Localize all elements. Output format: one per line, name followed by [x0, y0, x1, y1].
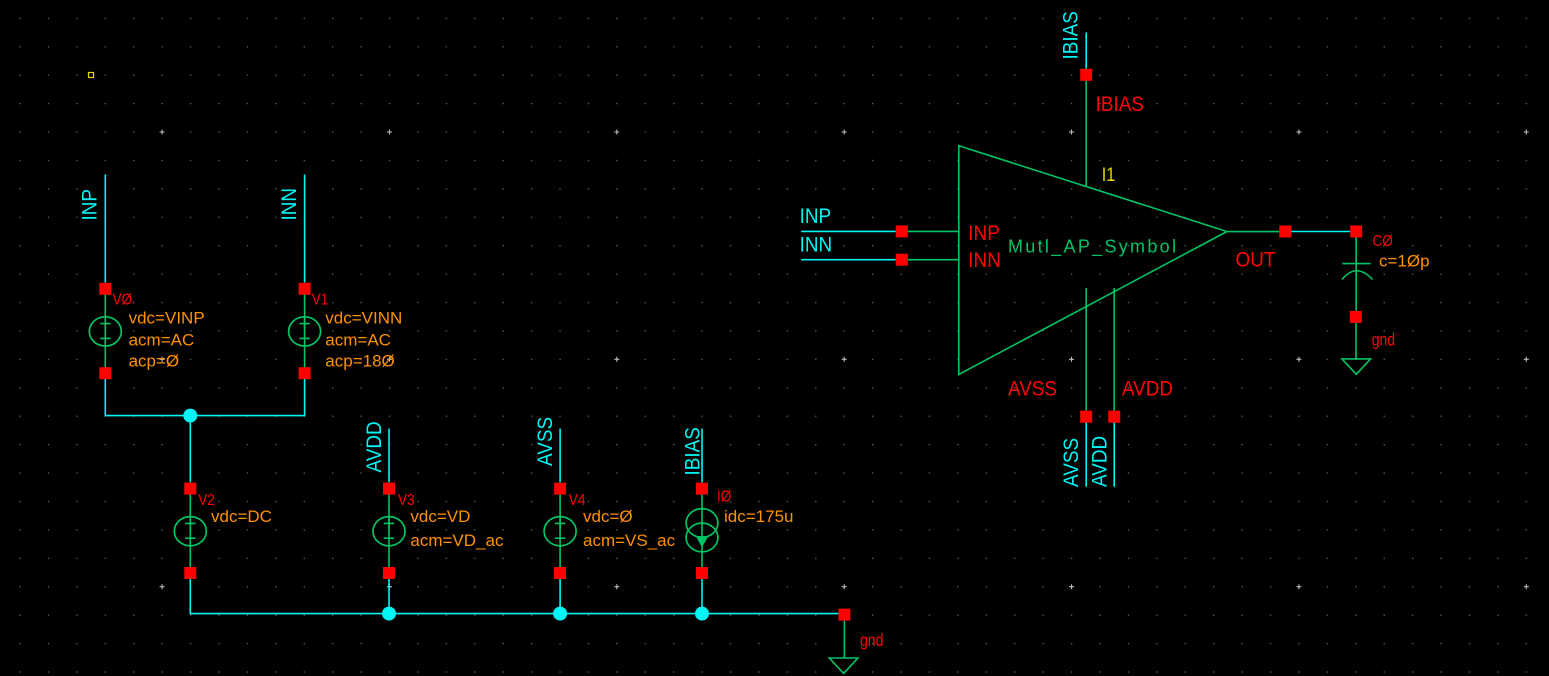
- svg-text:INN: INN: [278, 188, 301, 221]
- svg-text:vdc=VD: vdc=VD: [410, 507, 470, 526]
- svg-text:AVDD: AVDD: [1088, 436, 1111, 487]
- op-amp pin stub INP: [908, 230, 959, 232]
- voltage source V2: [189, 489, 191, 573]
- pin square rail gnd: [838, 609, 850, 621]
- pin square V1 plus: [299, 283, 311, 295]
- svg-text:acm=VD_ac: acm=VD_ac: [410, 531, 504, 550]
- svg-text:acm=AC: acm=AC: [325, 331, 391, 350]
- voltage source V0: [104, 289, 106, 373]
- voltage source V3: [388, 489, 390, 573]
- pin square symbol INN: [896, 254, 908, 266]
- wire net IBIAS top: [1085, 33, 1087, 69]
- svg-text:acp=18Ø: acp=18Ø: [325, 352, 394, 371]
- ground symbol at C0: [1355, 323, 1357, 359]
- pin square symbol AVDD: [1108, 411, 1120, 423]
- svg-text:AVDD: AVDD: [1122, 378, 1173, 401]
- origin marker (small yellow square): [89, 73, 94, 78]
- capacitor C0: [1342, 238, 1373, 311]
- pin square symbol AVSS: [1080, 411, 1092, 423]
- pin square V4 plus: [554, 483, 566, 495]
- svg-text:AVSS: AVSS: [534, 417, 557, 466]
- pin square C0 bottom: [1350, 311, 1362, 323]
- pin square V0 minus: [99, 367, 111, 379]
- svg-text:OUT: OUT: [1236, 249, 1276, 272]
- svg-text:vdc=Ø: vdc=Ø: [583, 507, 633, 526]
- svg-text:gnd: gnd: [860, 630, 883, 650]
- pin square V0 plus: [99, 283, 111, 295]
- wire net INP left (vertical at V0): [104, 175, 106, 283]
- svg-text:gnd: gnd: [1372, 330, 1395, 350]
- svg-text:INP: INP: [800, 205, 832, 228]
- svg-text:acp=Ø: acp=Ø: [129, 352, 180, 371]
- svg-text:vdc=VINP: vdc=VINP: [129, 309, 205, 328]
- wire net AVDD below symbol: [1113, 423, 1115, 487]
- wire net AVSS at V4: [559, 429, 561, 483]
- svg-text:I1: I1: [1102, 164, 1115, 186]
- pin square V3 minus: [383, 567, 395, 579]
- pin square C0 top: [1350, 226, 1362, 238]
- wire net INN to symbol: [801, 259, 896, 261]
- op-amp pin stub OUT: [1227, 231, 1279, 233]
- wire net OUT: [1291, 231, 1350, 233]
- pin square V2 minus: [184, 567, 196, 579]
- pin square OUT: [1279, 226, 1291, 238]
- svg-text:c=1Øp: c=1Øp: [1379, 252, 1430, 271]
- svg-text:idc=175u: idc=175u: [724, 507, 793, 526]
- junction node: [183, 409, 197, 423]
- svg-text:INP: INP: [78, 189, 101, 221]
- pin square V3 plus: [383, 483, 395, 495]
- wire net INN left (vertical at V1): [304, 175, 306, 283]
- op-amp I1 Mutl_AP_Symbol triangle: [959, 146, 1227, 375]
- wire net AVSS below symbol: [1085, 423, 1087, 487]
- pin square V1 minus: [299, 367, 311, 379]
- op-amp pin stub AVDD: [1113, 288, 1115, 411]
- junction node rail-V4: [553, 607, 567, 621]
- svg-text:vdc=DC: vdc=DC: [211, 507, 272, 526]
- current source I0: [701, 489, 703, 573]
- svg-text:IBIAS: IBIAS: [1096, 93, 1144, 116]
- wire net AVDD at V3: [388, 429, 390, 483]
- svg-text:AVDD: AVDD: [363, 421, 386, 472]
- pin square I0 plus: [696, 483, 708, 495]
- op-amp pin stub IBIAS: [1085, 81, 1087, 187]
- svg-text:IBIAS: IBIAS: [1059, 11, 1082, 59]
- pin square symbol IBIAS: [1080, 69, 1092, 81]
- op-amp pin stub INN: [908, 259, 959, 261]
- svg-text:VØ: VØ: [113, 291, 133, 308]
- wire bottom rail: [190, 579, 844, 614]
- major grid cross marks: [160, 130, 1529, 590]
- ground symbol bottom: [843, 621, 845, 658]
- pin square I0 minus: [696, 567, 708, 579]
- pin square symbol INP: [896, 225, 908, 237]
- wire net IBIAS at I0: [701, 429, 703, 483]
- pin square V2 plus: [184, 483, 196, 495]
- wire V0/V1 sources to junction: [105, 379, 304, 482]
- svg-text:AVSS: AVSS: [1060, 438, 1083, 487]
- junction node rail-V3: [382, 607, 396, 621]
- svg-text:Mutl_AP_Symbol: Mutl_AP_Symbol: [1008, 237, 1178, 258]
- wire net INP to symbol: [801, 230, 896, 232]
- svg-text:IBIAS: IBIAS: [681, 427, 704, 475]
- svg-text:acm=AC: acm=AC: [129, 331, 195, 350]
- pin square V4 minus: [554, 567, 566, 579]
- svg-text:INN: INN: [968, 249, 1001, 272]
- svg-text:INN: INN: [800, 233, 833, 256]
- op-amp pin stub AVSS: [1085, 288, 1087, 411]
- voltage source V1: [304, 289, 306, 373]
- svg-text:CØ: CØ: [1373, 233, 1394, 250]
- svg-text:vdc=VINN: vdc=VINN: [325, 309, 402, 328]
- svg-text:IØ: IØ: [717, 489, 732, 506]
- voltage source V4: [559, 489, 561, 573]
- svg-text:INP: INP: [968, 222, 1000, 245]
- svg-text:V1: V1: [312, 291, 329, 308]
- svg-text:AVSS: AVSS: [1008, 378, 1057, 401]
- junction node rail-I0: [695, 607, 709, 621]
- svg-text:acm=VS_ac: acm=VS_ac: [583, 531, 676, 550]
